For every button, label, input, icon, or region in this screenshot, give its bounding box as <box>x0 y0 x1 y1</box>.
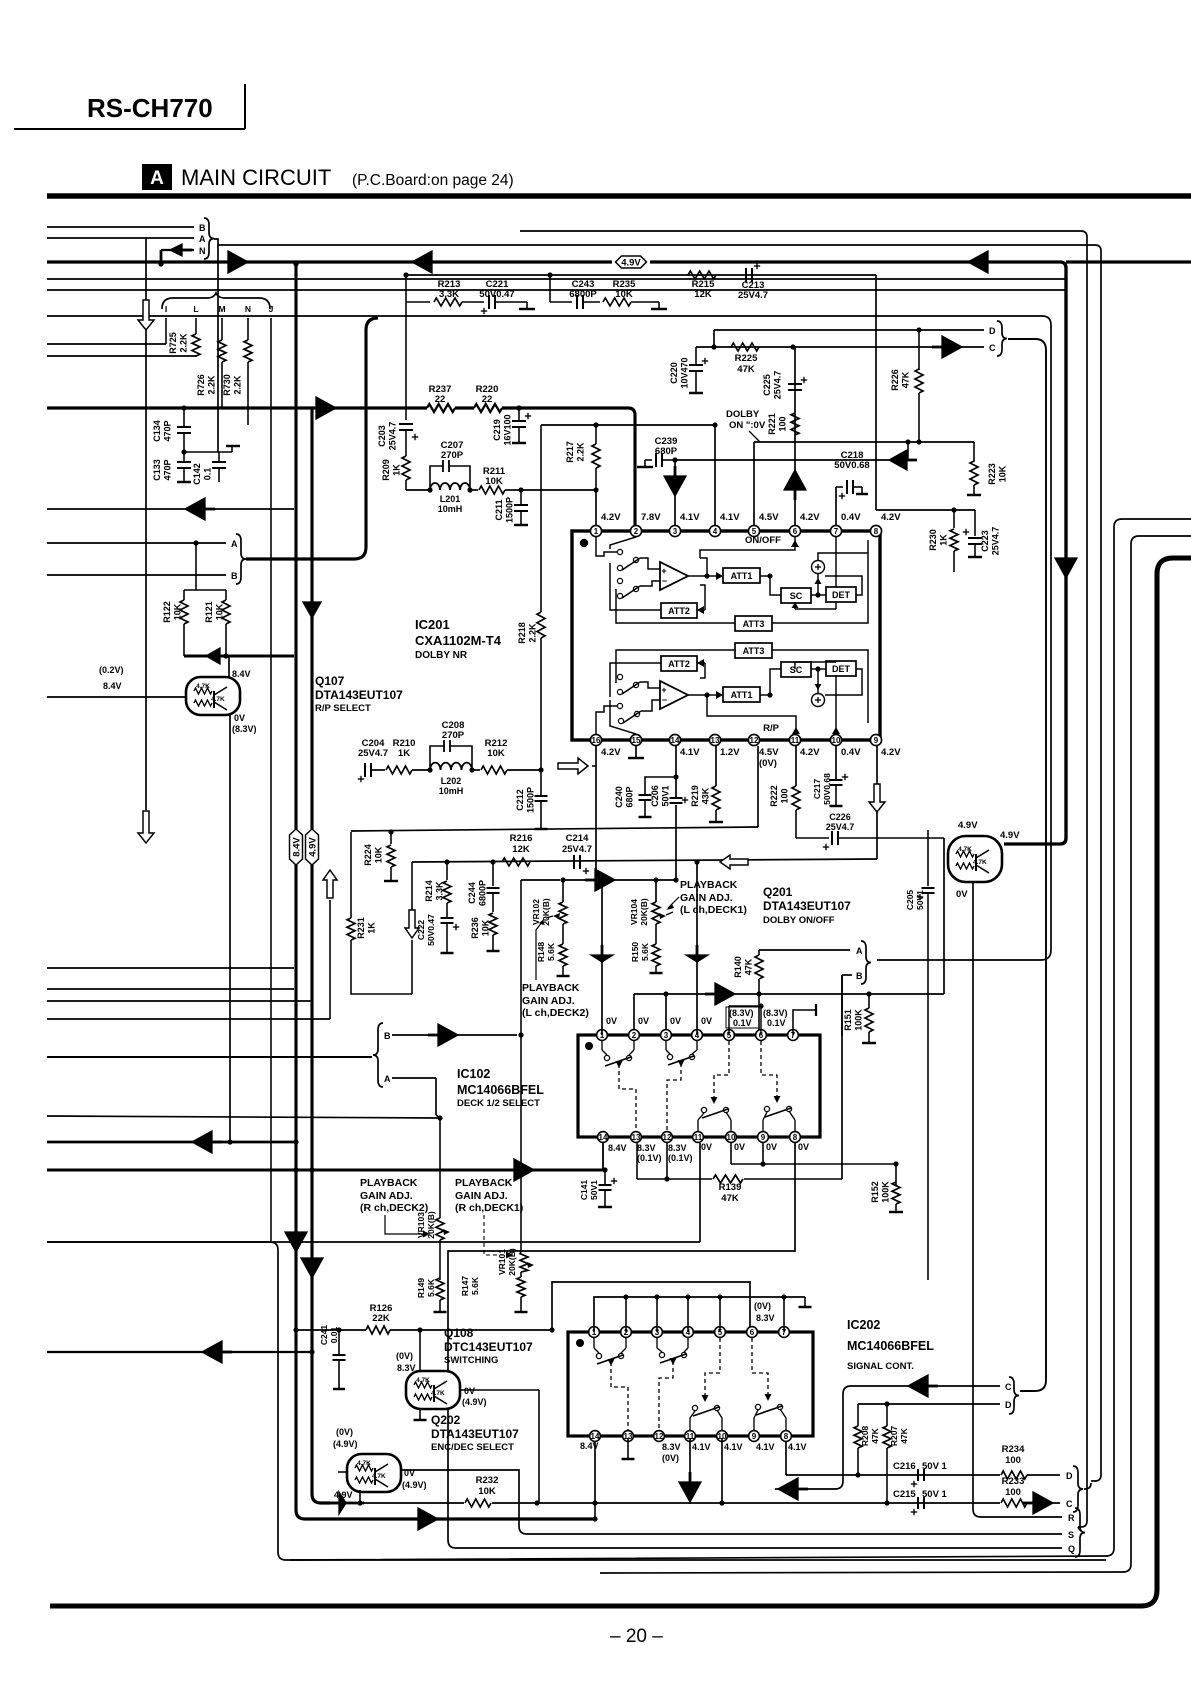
svg-text:R231: R231 <box>356 917 366 939</box>
wire ATT1 out <box>760 575 770 577</box>
arrow hollow up x330 <box>329 900 331 1019</box>
wire input N <box>161 249 194 251</box>
wire y880 to VR104 <box>563 879 676 881</box>
pin 12 IC201 <box>748 734 759 745</box>
wire line y316 A/B bus <box>47 315 1042 317</box>
svg-text:SIGNAL CONT.: SIGNAL CONT. <box>847 1361 914 1372</box>
svg-text:8.4V: 8.4V <box>580 1441 599 1451</box>
svg-text:R224: R224 <box>363 844 373 866</box>
svg-text:ATT1: ATT1 <box>731 571 753 581</box>
svg-text:8.4V: 8.4V <box>292 837 303 857</box>
resistor R224 <box>390 832 392 844</box>
transistor Q107 <box>186 677 240 715</box>
wire 4.9V bus <box>47 260 612 263</box>
svg-text:A: A <box>150 168 164 189</box>
wire 8.4V row y1170 <box>47 1169 605 1172</box>
pin 4 IC201 <box>709 525 720 536</box>
wire bracket BAN exit <box>214 239 218 245</box>
pin 1 IC202 <box>589 1327 600 1338</box>
junction W1 pin14 <box>592 1500 597 1505</box>
svg-text:C211: C211 <box>494 499 504 520</box>
arrow left y1352 <box>202 1341 222 1363</box>
capacitor C240 <box>645 777 676 795</box>
svg-text:DET: DET <box>832 590 851 600</box>
box ATT3 upper <box>735 616 772 631</box>
svg-text:DECK 1/2 SELECT: DECK 1/2 SELECT <box>457 1098 540 1109</box>
svg-text:0.4V: 0.4V <box>841 512 861 523</box>
junction y1142 <box>293 1139 298 1144</box>
flag 8.4V vert <box>290 829 303 865</box>
capacitor C239 <box>655 453 657 467</box>
box ATT3 lower <box>735 643 772 658</box>
capacitor C142 <box>218 452 220 462</box>
wire input B <box>47 226 194 228</box>
pin 5 IC202 <box>715 1327 726 1338</box>
wire C net <box>775 1386 1000 1489</box>
svg-text:6800P: 6800P <box>478 880 488 906</box>
resistor R230 <box>953 510 955 528</box>
svg-text:DTA143EUT107: DTA143EUT107 <box>763 899 851 913</box>
svg-text:SC: SC <box>790 591 803 601</box>
svg-text:8.4V: 8.4V <box>103 681 122 691</box>
arrow right W1 <box>339 1492 346 1514</box>
svg-text:(0V): (0V) <box>662 1453 679 1463</box>
resistor R725 <box>195 318 197 334</box>
junction IC202 bus <box>623 1294 628 1299</box>
wire pin10 col <box>835 746 837 780</box>
svg-text:ENC/DEC SELECT: ENC/DEC SELECT <box>431 1442 514 1453</box>
svg-text:R236: R236 <box>470 917 480 939</box>
resistor R236 <box>489 913 497 935</box>
arrow left y1142 <box>192 1131 212 1153</box>
wire pin1 col up <box>601 879 603 1035</box>
svg-text:MC14066BFEL: MC14066BFEL <box>457 1083 544 1097</box>
svg-text:Q: Q <box>1068 1544 1075 1554</box>
wire dolby row y442 <box>754 441 974 443</box>
svg-text:4.7K: 4.7K <box>211 696 225 703</box>
resistor R210 <box>386 766 412 774</box>
svg-text:R218: R218 <box>517 622 527 644</box>
switch IC202 3-4 <box>659 1352 664 1357</box>
svg-text:47K: 47K <box>870 1427 880 1443</box>
pin 2 IC102 <box>629 1030 640 1041</box>
wire to IC202 pin6 <box>552 1282 750 1332</box>
wire line y290 <box>47 289 1066 291</box>
svg-text:C223: C223 <box>980 530 990 552</box>
svg-text:1500P: 1500P <box>505 497 515 523</box>
junction R207 W1 <box>884 1500 889 1505</box>
svg-text:R233: R233 <box>1002 1476 1025 1487</box>
svg-text:4.1V: 4.1V <box>756 1442 775 1452</box>
dashed ctrl IC202 pin12 <box>659 1361 673 1430</box>
junction R151 top <box>866 991 871 996</box>
svg-text:0V: 0V <box>464 1386 475 1396</box>
svg-text:2.2K: 2.2K <box>207 375 217 395</box>
wire thick y408 <box>47 406 427 409</box>
wire IC202 top bus <box>594 1297 805 1332</box>
svg-text:25V4.7: 25V4.7 <box>773 371 783 400</box>
arrow right C row <box>942 336 962 358</box>
ground C239 <box>645 459 652 461</box>
resistor R226 <box>918 330 920 370</box>
header thick rule <box>47 193 1191 199</box>
arrow left y509 <box>185 498 205 520</box>
svg-text:8.4V: 8.4V <box>232 669 251 679</box>
wire L201 row to pin1 <box>521 489 596 491</box>
junction L201 b <box>467 487 472 492</box>
resistor R225 <box>731 343 759 351</box>
dashed ctrl IC202 pin5 <box>705 1338 720 1398</box>
junction pin4 top <box>712 422 717 427</box>
svg-text:DOLBY NR: DOLBY NR <box>415 650 468 661</box>
svg-text:7.8V: 7.8V <box>641 512 661 523</box>
arrow right R233 <box>1033 1492 1053 1514</box>
svg-text:12: 12 <box>663 1133 672 1142</box>
wire ATT1 up to pin6 <box>700 558 707 576</box>
switch IC202 9-8 <box>755 1404 760 1409</box>
svg-text:16: 16 <box>592 736 601 745</box>
svg-text:4.7K: 4.7K <box>973 859 987 866</box>
wire sw2 to opamp <box>640 581 660 586</box>
svg-text:(8.3V): (8.3V) <box>729 1008 754 1018</box>
wire input y356 <box>47 355 196 357</box>
flag 4.9V on bus <box>616 256 647 268</box>
logic IC202 body <box>568 1332 813 1436</box>
junction R218 bottom <box>538 767 543 772</box>
svg-text:R221: R221 <box>767 413 777 435</box>
svg-text:8.3V: 8.3V <box>756 1313 775 1323</box>
svg-text:4.2V: 4.2V <box>601 747 621 758</box>
svg-text:DET: DET <box>832 664 851 674</box>
plus C221 <box>481 310 487 312</box>
svg-text:IC201: IC201 <box>415 617 450 632</box>
svg-text:C225: C225 <box>762 374 772 396</box>
svg-text:(L ch,DECK1): (L ch,DECK1) <box>680 904 747 916</box>
wire row y862 <box>412 859 877 862</box>
junction pin9 row <box>760 1161 765 1166</box>
wire Q107 top thick <box>184 655 294 658</box>
junction row862 a <box>444 859 449 864</box>
svg-text:50V0.68: 50V0.68 <box>822 773 832 805</box>
capacitor C207 parallel loop <box>430 466 443 490</box>
junction L202 b <box>469 767 474 772</box>
wire bus line y231 <box>520 230 1081 232</box>
svg-text:(R ch,DECK2): (R ch,DECK2) <box>360 1202 428 1214</box>
pin 9 IC202 <box>749 1431 760 1442</box>
wire line y279 <box>47 278 1066 280</box>
wire pin4 column <box>714 425 716 530</box>
op-amp IC201 body <box>572 531 880 740</box>
svg-text:(8.3V): (8.3V) <box>232 724 257 734</box>
pin 9 IC201 <box>870 734 881 745</box>
circle-plus lower <box>812 694 825 707</box>
svg-text:680P: 680P <box>625 786 635 807</box>
svg-text:1K: 1K <box>392 464 402 476</box>
bracket D/C <box>997 321 1007 356</box>
svg-text:10K: 10K <box>485 476 503 487</box>
capacitor C221 <box>488 295 490 309</box>
svg-text:5.6K: 5.6K <box>426 1278 436 1297</box>
capacitor C225 <box>788 383 802 385</box>
svg-text:3.3K: 3.3K <box>435 881 445 901</box>
svg-text:47K: 47K <box>721 1193 739 1204</box>
junction R152 top <box>893 1161 898 1166</box>
pin 6 IC202 <box>747 1327 758 1338</box>
wire pin9 col <box>876 746 878 859</box>
svg-text:C: C <box>1005 1382 1012 1392</box>
chip marker IC202 <box>576 1339 584 1347</box>
arrow left C239 row <box>889 450 907 470</box>
svg-text:11: 11 <box>791 736 800 745</box>
wire y832 <box>351 827 758 831</box>
svg-text:3: 3 <box>673 527 678 536</box>
junction R139 pin12 <box>664 1176 669 1181</box>
svg-text:I: I <box>165 304 167 314</box>
svg-text:50V 1: 50V 1 <box>922 1461 948 1472</box>
junction IC202 bus <box>654 1294 659 1299</box>
svg-text:C205: C205 <box>905 890 915 911</box>
svg-text:0V: 0V <box>956 889 968 900</box>
svg-text:8.3V: 8.3V <box>397 1363 416 1373</box>
junction dolby R223 <box>916 439 921 444</box>
pin 2 IC202 <box>621 1327 632 1338</box>
potentiometer VR101 <box>520 880 522 1252</box>
dashed ctrl pin6 <box>761 1041 777 1099</box>
wire C203 column top <box>405 302 407 420</box>
junction C216 R208 <box>855 1472 860 1477</box>
svg-text:4.5V: 4.5V <box>759 512 779 523</box>
svg-text:1500P: 1500P <box>526 787 536 813</box>
wire R237-R220 <box>455 406 474 409</box>
svg-text:VR102: VR102 <box>531 899 541 925</box>
wire supply y275 <box>406 274 876 276</box>
inductor L201 <box>430 483 470 490</box>
svg-text:PLAYBACK: PLAYBACK <box>522 982 580 994</box>
wire IC202 sw11-10 stubs <box>690 1411 695 1418</box>
svg-text:C244: C244 <box>467 882 477 904</box>
wire D2C2 exit <box>1084 1483 1091 1489</box>
pin 10 IC202 <box>717 1431 728 1442</box>
svg-text:(P.C.Board:on page 24): (P.C.Board:on page 24) <box>352 172 514 189</box>
wire C133 C142 link <box>184 451 232 453</box>
wire pin2 col IC102 <box>633 994 635 1034</box>
svg-text:16V100: 16V100 <box>503 414 513 445</box>
capacitor C212 <box>540 770 542 795</box>
resistor R223 <box>973 442 975 462</box>
svg-text:50V 1: 50V 1 <box>922 1489 948 1500</box>
svg-text:D: D <box>1066 1471 1073 1481</box>
wire Rnet vertical Q201 emitter <box>972 882 974 1509</box>
wire IC202 pin4 stub <box>687 1338 689 1348</box>
wire opamp out low <box>688 694 706 696</box>
capacitor C206 <box>669 797 683 805</box>
resistor R139 <box>713 1175 743 1183</box>
wire pin16 to switch <box>596 706 618 734</box>
svg-text:C217: C217 <box>812 779 822 800</box>
svg-text:C206: C206 <box>650 785 660 807</box>
svg-text:(4.9V): (4.9V) <box>333 1439 358 1449</box>
wire pin14 col IC202 <box>594 1438 596 1503</box>
svg-text:C: C <box>989 343 996 353</box>
wire input y344 <box>47 343 166 345</box>
svg-text:VR104: VR104 <box>629 899 639 925</box>
resistor R730 <box>247 318 249 340</box>
svg-text:Q201: Q201 <box>763 885 793 899</box>
svg-text:8.3V: 8.3V <box>668 1143 687 1153</box>
svg-text:4.7K: 4.7K <box>958 846 972 853</box>
resistor R234 <box>1001 1471 1027 1479</box>
wire att3 lower link <box>616 650 735 683</box>
svg-text:50V0.47: 50V0.47 <box>426 914 436 946</box>
junction dolby stub <box>905 439 910 444</box>
svg-text:14: 14 <box>671 736 680 745</box>
junction A wire <box>193 540 198 545</box>
capacitor C243 <box>550 301 572 303</box>
svg-text:ATT2: ATT2 <box>668 606 690 616</box>
junction C219 <box>516 405 521 410</box>
svg-text:10K: 10K <box>215 603 225 620</box>
arrow down on 4.9V vertical <box>1055 558 1077 578</box>
svg-text:N: N <box>245 304 251 314</box>
wire IC102 pin1 stub <box>601 1041 603 1050</box>
wire Q107 emitter column <box>229 714 231 1142</box>
wire input y1115 <box>47 1116 440 1118</box>
dashed ctrl IC202 pin13 <box>611 1362 628 1430</box>
pin 5 IC201 <box>748 525 759 536</box>
wire IC202 pin stub up <box>656 1297 658 1332</box>
junction C row a <box>711 344 716 349</box>
box DET lower <box>826 661 856 676</box>
svg-text:100: 100 <box>780 788 790 803</box>
svg-text:A: A <box>199 234 206 244</box>
junction main vert top <box>293 261 298 266</box>
pin 9 IC102 <box>758 1132 769 1143</box>
arrow down pin1 col <box>591 955 613 962</box>
svg-text:C134: C134 <box>152 420 162 442</box>
svg-text:14: 14 <box>599 1133 608 1142</box>
junction row862 b <box>490 859 495 864</box>
resistor R140 <box>758 950 760 955</box>
svg-text:B: B <box>384 1031 391 1041</box>
wire B net vertical <box>841 975 843 1179</box>
chip marker IC102 <box>585 1042 593 1050</box>
svg-text:4.7K: 4.7K <box>416 1377 430 1384</box>
wire input y509 <box>47 508 294 510</box>
pin 7 IC202 <box>779 1327 790 1338</box>
wire det to pin7 <box>794 602 796 609</box>
svg-text:470P: 470P <box>163 459 173 480</box>
svg-text:R147: R147 <box>460 1276 470 1297</box>
pin 4 IC202 <box>683 1327 694 1338</box>
svg-text:R223: R223 <box>987 463 997 485</box>
svg-text:4.1V: 4.1V <box>680 747 700 758</box>
svg-text:0V: 0V <box>234 713 245 723</box>
svg-text:C215: C215 <box>893 1489 916 1500</box>
svg-text:5.6K: 5.6K <box>640 942 650 961</box>
svg-text:GAIN ADJ.: GAIN ADJ. <box>522 995 575 1007</box>
junction W2 pin14 <box>592 1516 597 1521</box>
resistor R147 <box>520 1272 522 1277</box>
svg-text:0.1V: 0.1V <box>767 1018 786 1028</box>
arrow hollow down pin9 <box>869 784 885 812</box>
arrow left C net top <box>908 1375 928 1397</box>
svg-text:R140: R140 <box>733 956 743 978</box>
wire y425 <box>541 424 715 426</box>
svg-text:GAIN ADJ.: GAIN ADJ. <box>360 1190 413 1202</box>
svg-text:−: − <box>662 695 667 705</box>
wire W1 row <box>330 1502 364 1505</box>
wire IC202 pin2 stub <box>625 1338 627 1348</box>
switch contacts lower in <box>617 674 622 679</box>
svg-text:(0.1V): (0.1V) <box>668 1153 693 1163</box>
switch IC102 9-8 <box>764 1106 769 1111</box>
bracket B/A/N <box>204 218 214 259</box>
svg-text:10V470: 10V470 <box>680 357 690 388</box>
pin 14 IC201 <box>669 734 680 745</box>
capacitor C223 <box>974 510 976 536</box>
svg-text:A: A <box>231 539 238 549</box>
wire right entry y558 thick <box>50 558 1191 1606</box>
svg-text:0.1: 0.1 <box>203 468 213 481</box>
svg-text:PLAYBACK: PLAYBACK <box>455 1177 513 1189</box>
junction R224 <box>388 829 393 834</box>
svg-text:1K: 1K <box>398 748 410 759</box>
svg-text:N: N <box>199 246 206 256</box>
capacitor C219 <box>518 408 520 421</box>
ground C221 <box>520 301 527 303</box>
wire bus line y245 <box>218 244 1095 246</box>
chip marker IC201 <box>580 539 588 547</box>
svg-text:R208: R208 <box>860 1426 870 1447</box>
capacitor C220 <box>695 347 697 365</box>
wire IC202 pin1 stub <box>593 1338 595 1348</box>
dashed ctrl pin12 <box>667 1063 681 1131</box>
svg-text:680P: 680P <box>655 446 678 457</box>
node J stub <box>270 318 272 1242</box>
resistor R231 <box>350 832 352 918</box>
wire IC202 pin3 stub <box>656 1338 658 1348</box>
box ATT1 upper <box>723 568 760 583</box>
svg-text:20K(B): 20K(B) <box>507 1248 517 1276</box>
wire ATT1 low to pin11 <box>707 695 796 734</box>
svg-text:0.01: 0.01 <box>329 1326 339 1343</box>
svg-text:4.7K: 4.7K <box>357 1460 371 1467</box>
arrow into ATT1 low <box>707 694 716 696</box>
wire pin12 col <box>757 746 759 827</box>
svg-text:8.4V: 8.4V <box>608 1143 627 1153</box>
svg-text:J: J <box>269 304 274 314</box>
wire pin14 col <box>675 746 677 880</box>
junction IC202 bus <box>781 1294 786 1299</box>
dashed ctrl pin5 <box>714 1041 729 1100</box>
wire C239 row <box>675 459 908 461</box>
resistor R121 <box>225 590 227 600</box>
arrow hollow down x412 <box>405 910 419 938</box>
svg-text:S: S <box>1068 1530 1074 1540</box>
arrow right B wire <box>438 1024 458 1046</box>
svg-text:10mH: 10mH <box>439 786 464 796</box>
junction pin14 <box>673 774 678 779</box>
pin 1 IC201 <box>590 525 601 536</box>
resistor R148 <box>562 924 564 944</box>
svg-text:4.2V: 4.2V <box>881 747 901 758</box>
wire IC202 pin stub up <box>625 1297 627 1332</box>
switch IC202 11-10 <box>692 1405 697 1410</box>
bracket A3/B3 <box>861 941 871 984</box>
pin 7 IC201 <box>830 525 841 536</box>
wire input y1142 <box>47 1141 296 1144</box>
wire pin7 column <box>835 487 837 530</box>
